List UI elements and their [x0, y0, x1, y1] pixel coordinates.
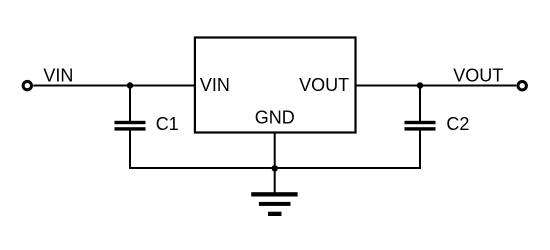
svg-text:C1: C1 [156, 114, 179, 134]
regulator U1 [195, 38, 356, 133]
wire C1 down to ground rail [129, 130, 131, 169]
wire U1 VOUT pin to VOUT terminal [355, 85, 517, 87]
svg-text:VOUT: VOUT [299, 75, 349, 95]
wire VIN terminal to regulator VIN pin [33, 85, 195, 87]
svg-text:GND: GND [255, 108, 295, 128]
junction ground node [272, 165, 278, 171]
wire C2 down to ground rail [419, 130, 421, 169]
terminal VIN [23, 81, 31, 89]
wire input node down to C1 [129, 86, 131, 122]
wire ground rail right segment [275, 167, 421, 169]
svg-text:VIN: VIN [200, 75, 230, 95]
terminal VOUT [518, 82, 526, 90]
svg-text:VIN: VIN [43, 66, 73, 86]
svg-text:C2: C2 [446, 114, 469, 134]
ground [251, 192, 297, 216]
junction input node [127, 82, 133, 88]
junction output node [417, 82, 423, 88]
wire output node down to C2 [419, 86, 421, 122]
wire ground node to ground symbol [274, 168, 276, 193]
wire U1 GND pin down [274, 133, 276, 170]
svg-text:VOUT: VOUT [453, 66, 503, 86]
capacitor C2 [405, 121, 436, 131]
capacitor C1 [115, 121, 146, 131]
wire ground rail left segment [129, 167, 275, 169]
